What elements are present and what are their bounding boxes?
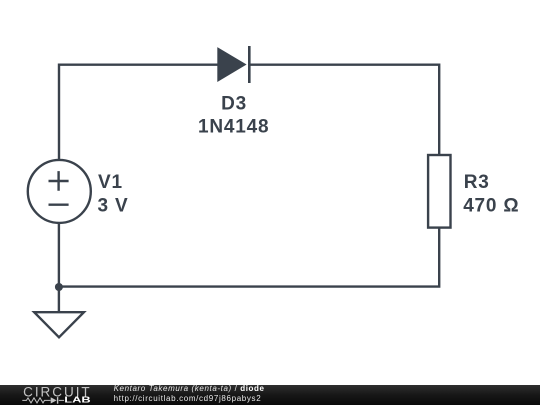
svg-text:Kentaro Takemura (kenta-ta) /: Kentaro Takemura (kenta-ta) / diode bbox=[114, 384, 265, 393]
svg-text:D3: D3 bbox=[221, 93, 247, 114]
svg-text:3 V: 3 V bbox=[98, 195, 129, 216]
svg-text:R3: R3 bbox=[464, 172, 490, 193]
svg-text:1N4148: 1N4148 bbox=[198, 117, 269, 138]
svg-text:LAB: LAB bbox=[64, 396, 91, 405]
svg-text:470 Ω: 470 Ω bbox=[463, 195, 519, 216]
svg-text:http://circuitlab.com/cd97j86p: http://circuitlab.com/cd97j86pabys2 bbox=[114, 394, 262, 403]
svg-text:V1: V1 bbox=[98, 172, 123, 193]
